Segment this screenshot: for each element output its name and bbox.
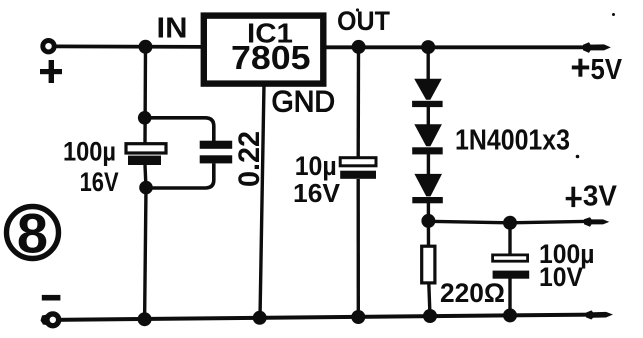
figure number badge 8	[7, 202, 59, 265]
svg-text:1N4001x3: 1N4001x3	[455, 125, 570, 157]
node cap branch bottom	[139, 181, 153, 195]
input terminal + (positive)	[40, 41, 62, 84]
svg-text:IN: IN	[157, 13, 188, 45]
wire to 0.22 cap top	[145, 118, 214, 141]
svg-text:16V: 16V	[80, 167, 119, 197]
wire top rail right (IC to +5V)	[324, 42, 611, 53]
label +5V	[572, 54, 623, 86]
wire below C3 to rail	[357, 179, 360, 317]
label 1N4001x3	[455, 125, 570, 157]
wire D3 to +3V node	[427, 202, 430, 222]
svg-text:5V: 5V	[591, 54, 623, 86]
capacitor C3 10u16V	[340, 158, 376, 179]
wire C4 to rail	[508, 279, 511, 316]
node diode-chain top junction	[421, 40, 435, 54]
wire GND pin to rail	[260, 84, 264, 318]
wire 0.22 cap bottom return	[146, 163, 214, 188]
node rail-input branch	[138, 312, 152, 326]
wire OUT junction to C3	[357, 47, 361, 158]
label 100u	[63, 137, 116, 167]
wire branch down to ground rail	[145, 188, 146, 319]
svg-text:16V: 16V	[293, 178, 341, 208]
wire junction to D1	[427, 47, 430, 80]
scan speck near OUT	[356, 8, 359, 11]
node cap branch top	[138, 111, 152, 125]
node rail-C3	[351, 310, 365, 324]
wire +3V node to C4	[508, 223, 511, 256]
svg-text:OUT: OUT	[337, 6, 390, 36]
svg-text:GND: GND	[272, 86, 336, 119]
label 100u right	[539, 239, 595, 269]
regulator IC U1 7805 (IC1)	[204, 16, 323, 84]
wire top rail left (input to IC)	[56, 45, 203, 49]
node OUT junction	[352, 40, 366, 54]
output terminal - (negative)	[41, 295, 61, 326]
svg-text:8: 8	[17, 202, 48, 265]
diode D2 1N4001	[412, 124, 443, 154]
svg-text:100µ: 100µ	[63, 137, 116, 167]
scan speck top right	[612, 13, 615, 16]
diode D1 1N4001	[412, 79, 443, 107]
node rail-resistor	[423, 309, 437, 323]
svg-text:10µ: 10µ	[295, 151, 337, 181]
node input junction	[139, 40, 153, 54]
label 0.22 (rotated)	[233, 131, 266, 187]
label +3V	[566, 180, 618, 212]
node +3V cap junction	[503, 216, 517, 230]
label 16V mid	[293, 178, 341, 208]
node rail-C4	[503, 308, 517, 322]
node rail-GND	[253, 311, 267, 325]
ground rail (bottom)	[54, 310, 613, 320]
svg-text:10V: 10V	[539, 262, 583, 292]
capacitor C1 100u16V	[126, 144, 166, 165]
label 220 ohm	[440, 278, 505, 308]
wire input branch vertical	[143, 47, 147, 143]
diode D3 1N4001	[412, 174, 443, 203]
svg-text:220Ω: 220Ω	[440, 278, 505, 308]
wire +3V rail	[428, 217, 609, 227]
label OUT	[337, 6, 390, 36]
label IN	[157, 13, 188, 45]
node +3V left junction	[421, 214, 435, 228]
label 10u	[295, 151, 337, 181]
resistor R1 220 ohm	[422, 246, 435, 283]
label 10V	[539, 262, 583, 292]
label GND	[272, 86, 336, 119]
label 16V	[80, 167, 119, 197]
capacitor C4 100u10V	[493, 255, 530, 279]
svg-text:7805: 7805	[231, 39, 311, 76]
wire below C1	[145, 165, 146, 188]
scan speck near 1N4001x3	[576, 155, 580, 159]
svg-text:3V: 3V	[583, 180, 618, 212]
wire node to resistor	[427, 221, 431, 247]
capacitor C2 0.22	[200, 141, 233, 164]
wire resistor to rail	[429, 283, 430, 316]
wire D1-D2	[427, 107, 430, 125]
wire D2-D3	[427, 154, 430, 174]
